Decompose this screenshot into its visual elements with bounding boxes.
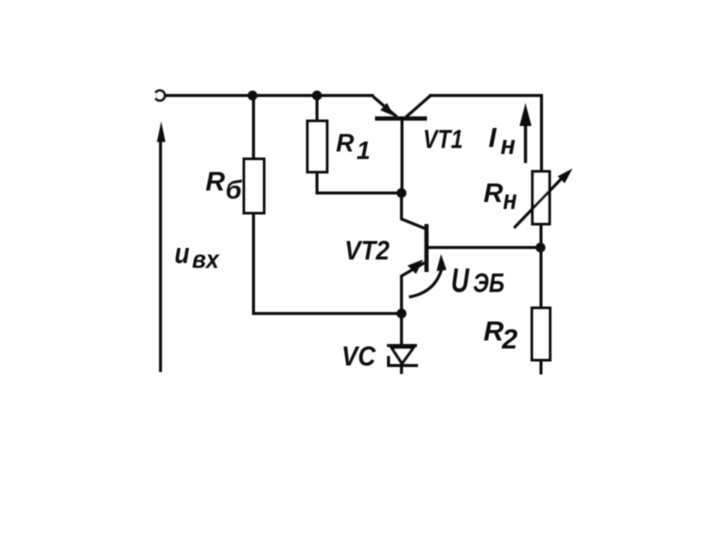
wire top rail right <box>429 96 542 172</box>
svg-text:u: u <box>175 238 190 270</box>
svg-text:б: б <box>226 175 243 205</box>
svg-text:2: 2 <box>501 324 518 355</box>
resistor Rb <box>244 159 264 213</box>
svg-text:н: н <box>501 130 516 160</box>
svg-text:R: R <box>206 167 226 197</box>
node B <box>312 91 322 101</box>
wire Rb top lead <box>252 96 255 160</box>
wire top rail left <box>165 94 374 97</box>
U_EB arc arrow <box>409 254 447 297</box>
svg-text:R: R <box>484 178 504 208</box>
wire Rb bottom to node D <box>254 213 402 314</box>
wire VT1 base down to node C <box>401 120 404 193</box>
svg-text:VT1: VT1 <box>423 124 463 154</box>
wire R1 bottom to node C <box>317 172 402 193</box>
resistor R1 <box>308 121 328 172</box>
svg-text:н: н <box>503 184 517 215</box>
wire R1 top lead <box>316 96 319 122</box>
svg-text:1: 1 <box>357 137 371 165</box>
wire VT2 base to node E <box>428 246 541 249</box>
wire R2 bottom lead <box>540 360 543 375</box>
node E <box>536 243 546 253</box>
svg-text:R: R <box>336 130 354 158</box>
svg-text:U: U <box>451 262 470 300</box>
transistor VT1 <box>373 96 430 119</box>
svg-text:VT2: VT2 <box>345 236 390 266</box>
svg-text:I: I <box>489 122 498 153</box>
rheostat RH <box>514 169 573 229</box>
svg-text:вх: вх <box>192 246 220 274</box>
svg-text:VC: VC <box>342 341 377 372</box>
resistor R2 <box>532 308 550 360</box>
current arrow I_n <box>520 103 532 163</box>
wire VC zener to node D <box>400 314 403 375</box>
zener diode VC <box>387 346 418 366</box>
svg-text:ЭБ: ЭБ <box>473 268 505 298</box>
wire node E to R2 <box>540 224 543 308</box>
voltage arrow u_vx <box>157 122 166 373</box>
node A <box>248 91 258 101</box>
transistor VT2 <box>402 193 427 314</box>
node C <box>397 188 407 198</box>
input terminal <box>155 91 165 101</box>
node D <box>397 309 407 319</box>
